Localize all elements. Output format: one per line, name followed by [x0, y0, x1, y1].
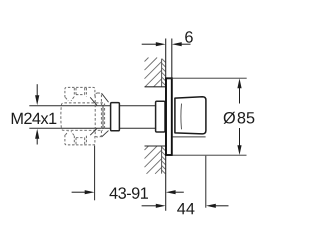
- wall boundary bottom: [145, 146, 166, 174]
- valve body (dashed hidden outline): [61, 103, 103, 130]
- wall hatch bottom section: [145, 146, 162, 174]
- dimension Ø85: [168, 78, 255, 155]
- top port (dashed): [65, 87, 95, 101]
- dimension 6: [142, 31, 193, 46]
- knob base line: [173, 136, 206, 138]
- mounting collar (solid): [111, 103, 120, 131]
- dimension 43-91: [72, 145, 184, 200]
- label M24x1: [12, 113, 57, 124]
- knob inner contour: [180, 104, 183, 130]
- dimension 44: [142, 156, 229, 214]
- wall boundary top: [145, 59, 166, 87]
- wall socket nut (solid): [156, 101, 165, 132]
- bottom port (dashed): [65, 131, 95, 145]
- wall finish layer hatch top: [162, 59, 166, 86]
- M24x1 thread extension lines (stem top/bottom edges): [29, 106, 156, 129]
- finished wall surface line: [165, 39, 167, 211]
- escutcheon flange (side view): [166, 78, 172, 155]
- handle knob: [175, 97, 206, 134]
- M24x1 up arrow: [35, 129, 39, 145]
- body end line: [102, 105, 104, 129]
- M24x1 down arrow: [35, 84, 39, 105]
- wall finish layer hatch bottom: [162, 147, 166, 174]
- valve dome (dashed): [95, 93, 104, 137]
- body shoulder diagonals (solid): [90, 93, 108, 137]
- wall hatch top section: [145, 58, 162, 87]
- escutcheon front extension line (for 6 dim): [171, 39, 173, 80]
